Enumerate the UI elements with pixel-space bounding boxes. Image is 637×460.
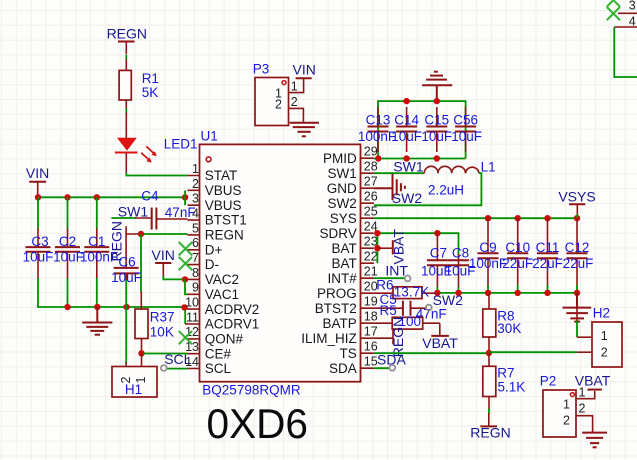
wire SW1-C4 bbox=[111, 217, 136, 219]
svg-text:16: 16 bbox=[364, 340, 378, 354]
capacitor C1 bbox=[80, 197, 118, 307]
svg-text:SCL: SCL bbox=[205, 361, 232, 376]
resistor R7 bbox=[483, 353, 525, 409]
wire R37 to H1 pin1 / pin13 bbox=[141, 339, 143, 354]
LED LED1 bbox=[115, 137, 198, 163]
svg-text:1: 1 bbox=[601, 329, 608, 343]
svg-text:6: 6 bbox=[192, 236, 199, 250]
port VSYS bbox=[558, 188, 595, 218]
port VBAT (R5) bbox=[422, 323, 458, 351]
svg-text:19: 19 bbox=[364, 295, 378, 309]
wire GND rail (right) bbox=[436, 292, 577, 294]
svg-text:10uF: 10uF bbox=[451, 129, 482, 144]
svg-text:BQ25798RQMR: BQ25798RQMR bbox=[202, 382, 301, 397]
node VIN rail junctions bbox=[35, 194, 189, 200]
svg-text:QON#: QON# bbox=[205, 332, 244, 347]
svg-text:BATP: BATP bbox=[323, 316, 357, 331]
port REGN (bottom) bbox=[470, 409, 510, 441]
svg-text:H2: H2 bbox=[593, 306, 610, 321]
connector P2 bbox=[540, 373, 586, 437]
wire C13-C56 top rail bbox=[378, 101, 466, 158]
capacitor C7 bbox=[421, 233, 452, 293]
no-connect X pin7 bbox=[179, 257, 193, 270]
ground (top, inverted) bbox=[422, 72, 452, 101]
wire REGN-R1 bbox=[125, 55, 127, 60]
no-connect X (corner pin3) bbox=[607, 7, 620, 20]
ground (H2) bbox=[0, 0, 1, 1]
port VIN (P3) bbox=[293, 62, 316, 79]
svg-text:C56: C56 bbox=[453, 113, 478, 128]
svg-text:10: 10 bbox=[185, 296, 199, 310]
node TS junction bbox=[486, 350, 492, 356]
capacitor C3 bbox=[23, 197, 54, 307]
svg-text:14: 14 bbox=[185, 355, 199, 369]
svg-text:P3: P3 bbox=[253, 62, 270, 77]
connector (top-right, partial) bbox=[614, 0, 637, 77]
svg-text:VSYS: VSYS bbox=[558, 188, 595, 204]
resistor R5 bbox=[374, 303, 440, 329]
wire SW1 (pin28) bbox=[374, 172, 424, 174]
svg-text:C3: C3 bbox=[31, 234, 48, 249]
svg-text:STAT: STAT bbox=[205, 168, 238, 183]
wire GND rail (left) bbox=[38, 306, 185, 307]
port VBAT (P2) bbox=[575, 373, 611, 390]
wire P2 pin1 to VBAT bbox=[576, 391, 595, 399]
connector H1 bbox=[112, 367, 157, 398]
svg-text:BTST2: BTST2 bbox=[315, 301, 357, 316]
wire SCL stub pin14 bbox=[166, 368, 188, 370]
svg-text:2: 2 bbox=[601, 346, 608, 360]
wire BAT tie (pins 22-24) bbox=[376, 233, 378, 263]
svg-text:R37: R37 bbox=[150, 310, 175, 325]
svg-text:29: 29 bbox=[364, 145, 378, 159]
svg-text:C13: C13 bbox=[366, 113, 391, 128]
svg-text:SW2: SW2 bbox=[328, 196, 357, 211]
wire INT stub (pin21) bbox=[374, 277, 406, 279]
svg-text:C15: C15 bbox=[424, 113, 449, 128]
ground (pin27, sideways) bbox=[374, 174, 405, 200]
wire P3 pin1 to VIN bbox=[289, 79, 304, 93]
svg-text:ACDRV1: ACDRV1 bbox=[205, 317, 260, 332]
capacitor C14 bbox=[391, 107, 422, 152]
svg-text:R1: R1 bbox=[142, 71, 159, 86]
port VIN (left) bbox=[26, 165, 49, 196]
svg-text:5: 5 bbox=[192, 221, 199, 235]
capacitor C12 bbox=[563, 218, 594, 293]
wire P3 pin2 to ground bbox=[289, 108, 304, 122]
capacitor C6 bbox=[111, 254, 142, 285]
svg-text:22uF: 22uF bbox=[532, 256, 563, 271]
svg-text:5.1K: 5.1K bbox=[498, 380, 526, 395]
svg-text:1: 1 bbox=[192, 162, 199, 176]
svg-text:REGN: REGN bbox=[107, 26, 147, 42]
svg-text:27: 27 bbox=[364, 175, 378, 189]
svg-text:30K: 30K bbox=[497, 321, 521, 336]
svg-text:REGN: REGN bbox=[470, 424, 510, 440]
svg-text:5K: 5K bbox=[142, 85, 159, 100]
svg-text:SDRV: SDRV bbox=[320, 226, 357, 241]
svg-text:13.7K: 13.7K bbox=[394, 285, 429, 300]
svg-text:SW1: SW1 bbox=[118, 203, 149, 219]
svg-text:22uF: 22uF bbox=[563, 256, 594, 271]
svg-text:VAC2: VAC2 bbox=[205, 272, 239, 287]
svg-text:PMID: PMID bbox=[323, 151, 357, 166]
wire PMID rail (pin29) bbox=[374, 158, 466, 160]
node REGN junction bbox=[141, 233, 188, 235]
capacitor C9 bbox=[469, 218, 507, 293]
svg-text:C8: C8 bbox=[452, 245, 469, 260]
inductor L1 bbox=[424, 160, 495, 198]
resistor R1 bbox=[119, 70, 159, 100]
ground (left rail) bbox=[82, 307, 112, 335]
svg-text:10uF: 10uF bbox=[23, 250, 54, 265]
svg-text:VBUS: VBUS bbox=[205, 198, 242, 213]
svg-text:PROG: PROG bbox=[317, 286, 357, 301]
capacitor C13 bbox=[358, 107, 396, 152]
op-amp U1 (IC BQ25798RQMR) bbox=[185, 129, 378, 398]
wire TS to H2 pin2 bbox=[489, 351, 577, 353]
svg-text:1: 1 bbox=[291, 80, 298, 94]
port VIN (middle) bbox=[152, 247, 175, 277]
svg-text:SYS: SYS bbox=[330, 211, 357, 226]
connector H2 bbox=[592, 306, 622, 367]
svg-text:18: 18 bbox=[364, 310, 378, 324]
svg-text:REGN: REGN bbox=[205, 228, 244, 243]
svg-text:BAT: BAT bbox=[332, 241, 357, 256]
port VBAT (rotated, pin23) bbox=[377, 229, 406, 265]
svg-text:VBAT: VBAT bbox=[575, 373, 611, 389]
wire pin2-pin3 tie bbox=[184, 190, 186, 205]
svg-text:25: 25 bbox=[364, 205, 378, 219]
capacitor C2 bbox=[53, 197, 84, 307]
svg-text:C10: C10 bbox=[505, 240, 530, 255]
svg-text:H1: H1 bbox=[125, 382, 142, 397]
svg-text:17: 17 bbox=[364, 325, 378, 339]
svg-text:R5: R5 bbox=[380, 303, 397, 318]
svg-text:TS: TS bbox=[340, 346, 357, 361]
svg-text:C11: C11 bbox=[536, 240, 560, 255]
svg-text:VAC1: VAC1 bbox=[205, 287, 239, 302]
svg-text:CE#: CE# bbox=[205, 346, 232, 361]
svg-text:10uF: 10uF bbox=[445, 264, 476, 279]
no-connect X (corner, clipped) bbox=[607, 0, 620, 7]
capacitor C10 bbox=[502, 218, 533, 293]
svg-text:VBAT: VBAT bbox=[391, 229, 407, 265]
wire REGN down bbox=[140, 234, 142, 293]
svg-text:VBUS: VBUS bbox=[205, 183, 242, 198]
wire SDA stub (pin15) bbox=[374, 367, 390, 369]
capacitor C56 bbox=[451, 107, 482, 152]
svg-text:SW1: SW1 bbox=[328, 166, 357, 181]
svg-text:3: 3 bbox=[629, 0, 636, 13]
svg-text:C12: C12 bbox=[565, 240, 590, 255]
wire C7/C8 top rail bbox=[437, 233, 458, 255]
wire L1 to SW2 (pin26) bbox=[374, 173, 482, 205]
wire SYS rail (pin25) bbox=[374, 217, 577, 219]
svg-text:C6: C6 bbox=[118, 254, 135, 269]
svg-text:P2: P2 bbox=[540, 373, 557, 388]
svg-text:U1: U1 bbox=[201, 129, 218, 144]
svg-text:GND: GND bbox=[327, 181, 357, 196]
svg-text:ACDRV2: ACDRV2 bbox=[205, 302, 260, 317]
svg-text:2: 2 bbox=[563, 414, 570, 428]
svg-text:C2: C2 bbox=[59, 234, 76, 249]
no-connect X pin12 bbox=[179, 331, 193, 344]
svg-text:2: 2 bbox=[275, 98, 282, 112]
svg-text:0XD6: 0XD6 bbox=[207, 400, 309, 447]
svg-text:7: 7 bbox=[192, 251, 199, 265]
svg-text:2: 2 bbox=[192, 177, 199, 191]
net label REGN (rotated, pin17) bbox=[374, 317, 406, 357]
svg-text:11: 11 bbox=[186, 310, 199, 324]
svg-text:15: 15 bbox=[364, 355, 378, 369]
svg-text:C4: C4 bbox=[141, 188, 159, 203]
capacitor C5 bbox=[374, 292, 447, 322]
svg-text:C14: C14 bbox=[394, 113, 419, 128]
svg-text:1: 1 bbox=[563, 397, 570, 411]
wire VIN to pin8/pin9 bbox=[163, 276, 185, 279]
resistor R6 bbox=[374, 278, 436, 300]
svg-text:VIN: VIN bbox=[26, 165, 49, 181]
svg-text:28: 28 bbox=[364, 160, 378, 174]
wire LED1 to pin1 bbox=[125, 153, 127, 174]
svg-text:21: 21 bbox=[364, 265, 378, 279]
svg-text:47nF: 47nF bbox=[165, 205, 196, 220]
resistor R8 bbox=[483, 293, 522, 353]
svg-text:R7: R7 bbox=[497, 366, 514, 381]
capacitor C11 bbox=[532, 218, 563, 293]
svg-text:D+: D+ bbox=[205, 242, 223, 257]
svg-text:4: 4 bbox=[192, 207, 199, 221]
svg-text:22: 22 bbox=[364, 250, 378, 264]
wire P2 pin2 to ground bbox=[576, 416, 593, 433]
svg-text:8: 8 bbox=[192, 266, 199, 280]
svg-text:VIN: VIN bbox=[152, 247, 175, 263]
wire R1-LED1 bbox=[125, 100, 127, 110]
svg-text:C1: C1 bbox=[88, 234, 105, 249]
svg-text:2: 2 bbox=[579, 401, 586, 415]
wire C4 to pin4 bbox=[156, 218, 187, 220]
no-connect X pin6 bbox=[179, 242, 193, 255]
svg-text:L1: L1 bbox=[481, 160, 496, 175]
svg-text:10uF: 10uF bbox=[421, 129, 452, 144]
svg-text:SDA: SDA bbox=[329, 361, 357, 376]
svg-text:C7: C7 bbox=[430, 245, 447, 260]
wire C6 bottom to GND rail to H1 pin2 bbox=[125, 273, 127, 281]
capacitor C4 bbox=[141, 188, 195, 229]
svg-text:BAT: BAT bbox=[332, 256, 357, 271]
svg-text:2: 2 bbox=[291, 95, 298, 109]
svg-text:BTST1: BTST1 bbox=[205, 213, 247, 228]
svg-text:R6: R6 bbox=[376, 278, 393, 293]
wire H2 pin1 gnd drop bbox=[576, 293, 578, 322]
svg-text:SW2: SW2 bbox=[433, 292, 464, 308]
svg-text:26: 26 bbox=[364, 190, 378, 204]
svg-text:2.2uH: 2.2uH bbox=[428, 182, 464, 197]
capacitor C15 bbox=[421, 107, 452, 152]
svg-text:INT#: INT# bbox=[328, 271, 358, 286]
capacitor C8 bbox=[445, 245, 476, 293]
ground (P3) bbox=[290, 123, 319, 137]
svg-text:D-: D- bbox=[205, 257, 219, 272]
connector P3 bbox=[253, 62, 298, 126]
svg-text:VIN: VIN bbox=[293, 62, 316, 78]
svg-text:10uF: 10uF bbox=[391, 129, 422, 144]
wire H2 pin2 lead bbox=[577, 351, 592, 353]
ground (P2) bbox=[582, 433, 607, 448]
svg-text:C9: C9 bbox=[479, 240, 496, 255]
ground (VSYS rail) bbox=[563, 293, 592, 322]
svg-text:3: 3 bbox=[192, 192, 199, 206]
port REGN (top) bbox=[107, 26, 147, 54]
wire VIN rail bbox=[38, 196, 185, 198]
svg-text:22uF: 22uF bbox=[502, 256, 533, 271]
svg-text:ILIM_HIZ: ILIM_HIZ bbox=[301, 331, 357, 346]
wire TS (pin16) bbox=[374, 352, 489, 354]
svg-text:9: 9 bbox=[192, 281, 199, 295]
svg-text:LED1: LED1 bbox=[164, 137, 198, 152]
svg-text:4: 4 bbox=[629, 14, 636, 28]
resistor R37 bbox=[135, 309, 175, 339]
svg-text:VBAT: VBAT bbox=[422, 335, 458, 351]
svg-text:10K: 10K bbox=[150, 324, 174, 339]
svg-text:13: 13 bbox=[185, 340, 199, 354]
wire pin10-pin11 tie bbox=[184, 309, 186, 325]
